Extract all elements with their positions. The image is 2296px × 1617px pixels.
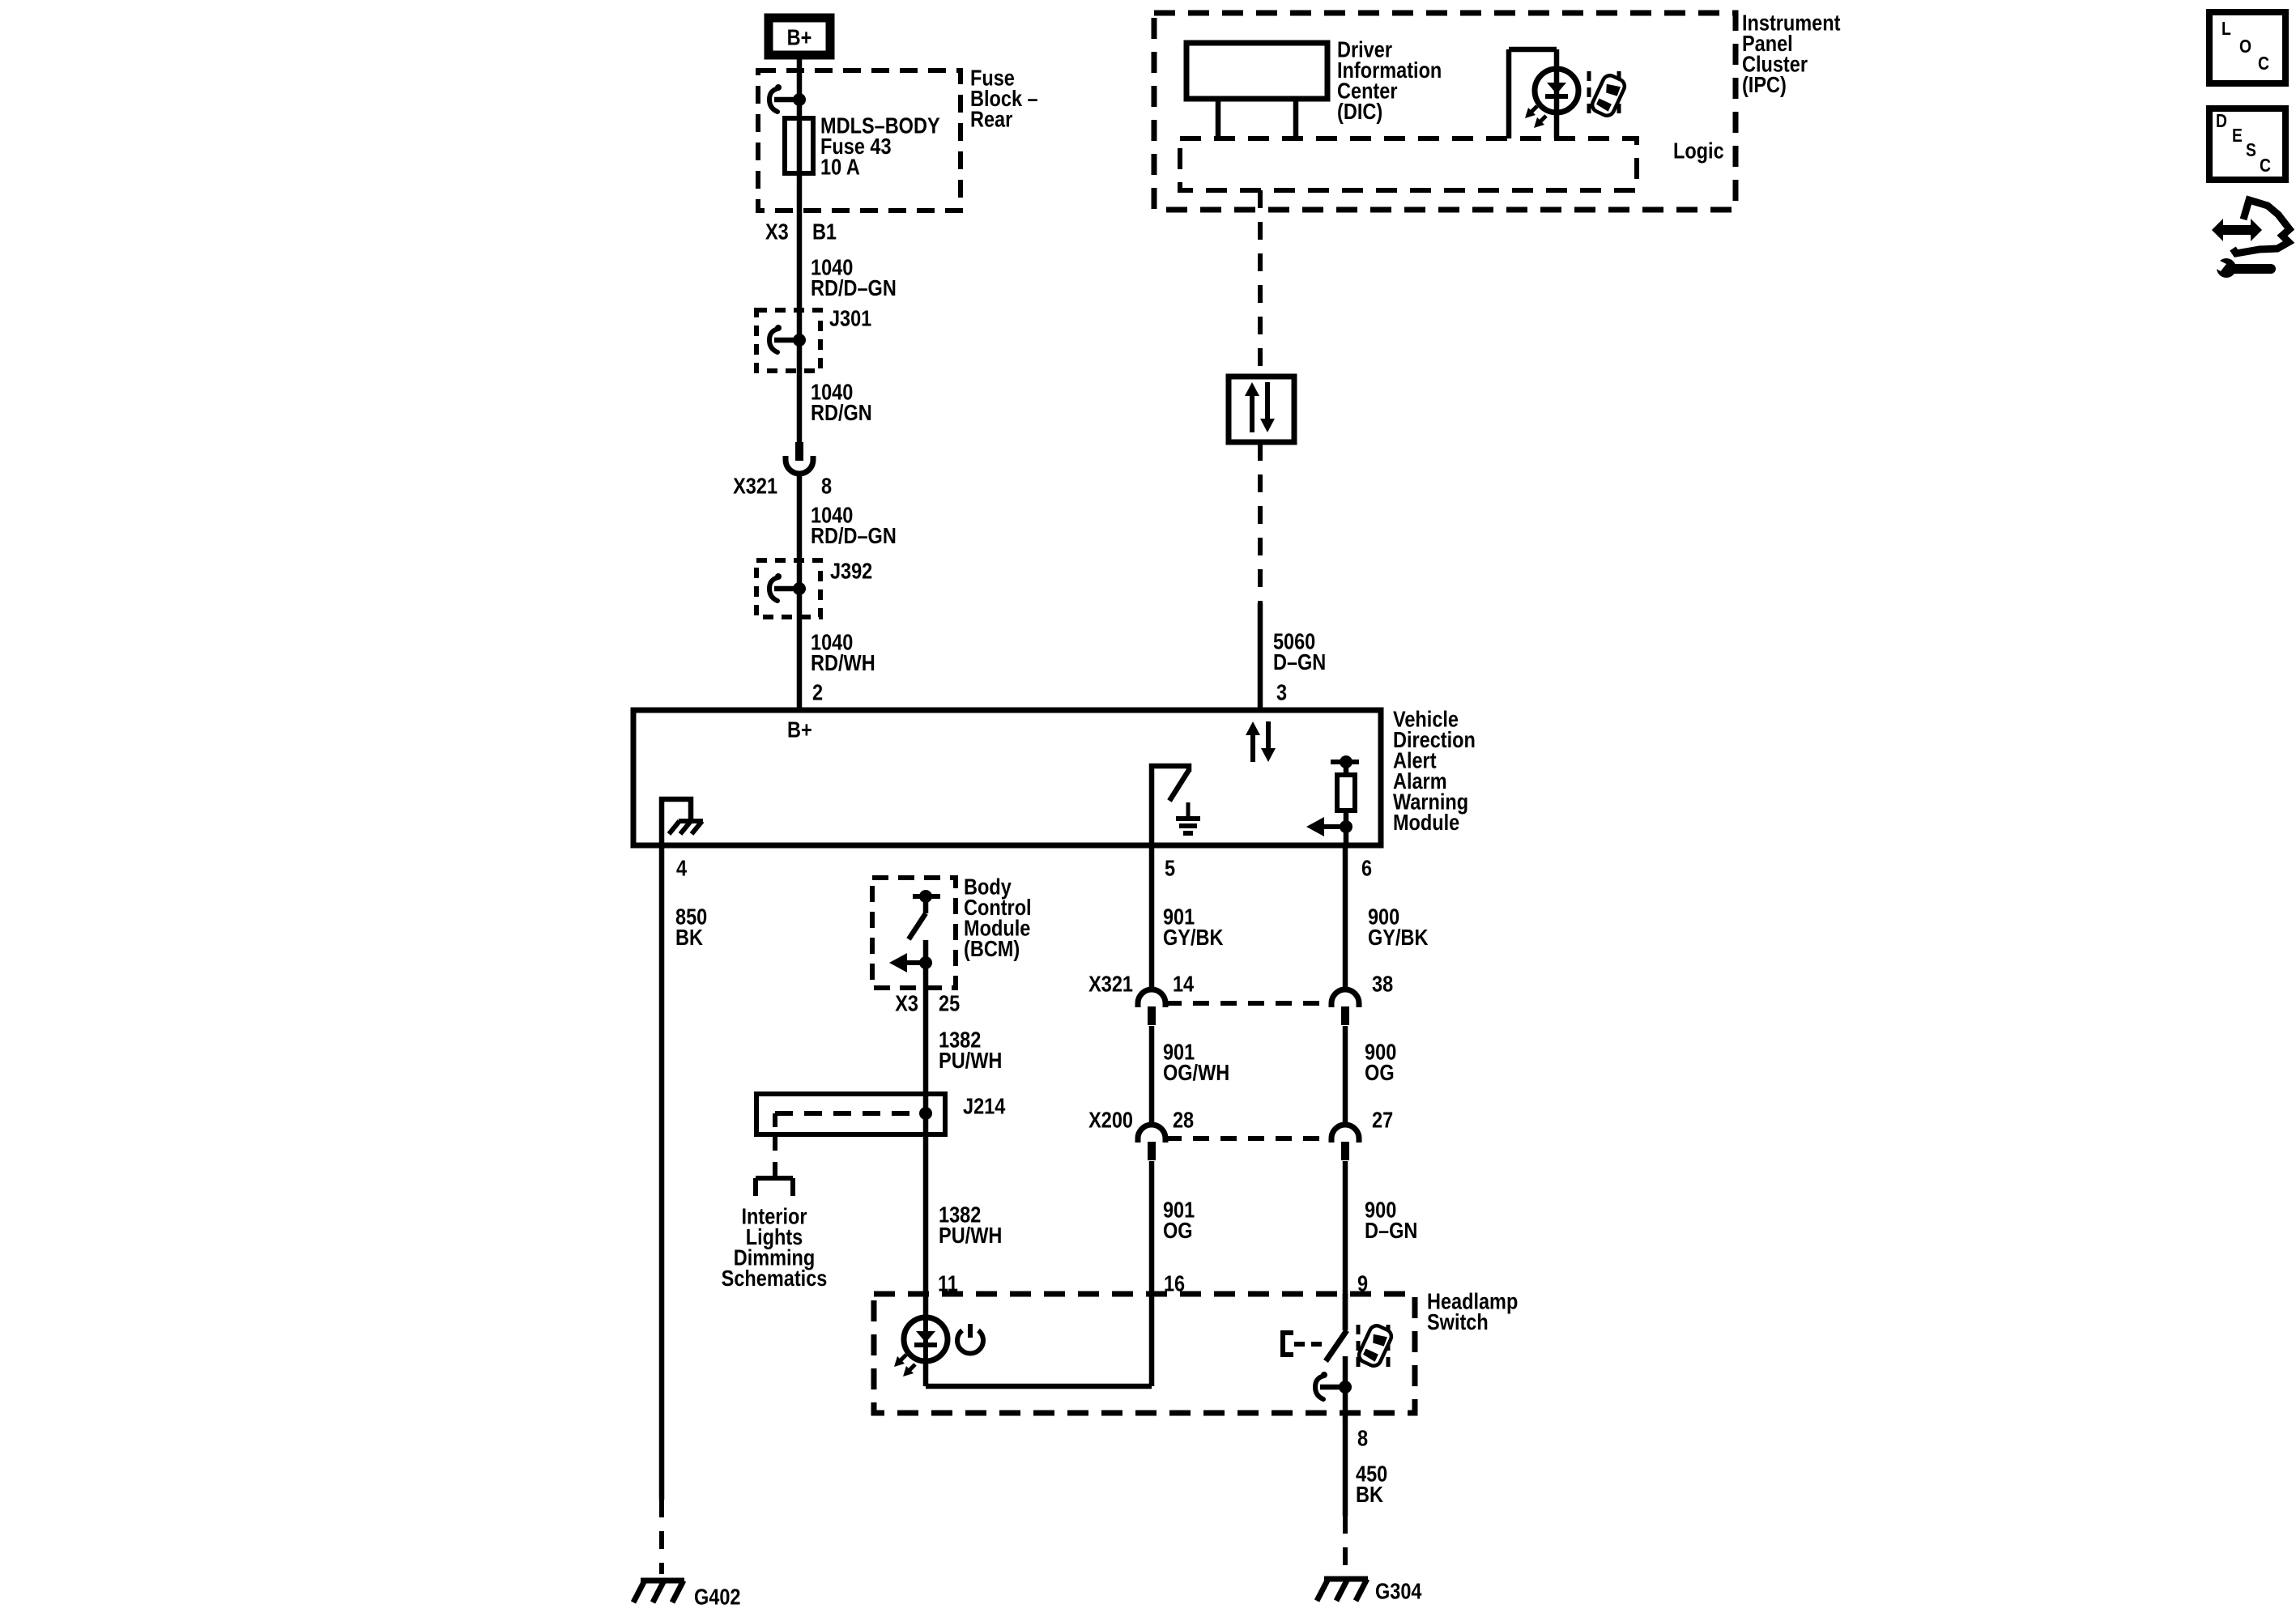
svg-text:25: 25	[939, 992, 960, 1016]
svg-text:E: E	[2232, 126, 2243, 147]
svg-text:11: 11	[938, 1272, 958, 1296]
svg-text:Rear: Rear	[970, 108, 1012, 132]
svg-text:Switch: Switch	[1427, 1310, 1489, 1334]
svg-text:(DIC): (DIC)	[1337, 100, 1382, 124]
svg-text:D–GN: D–GN	[1273, 650, 1326, 674]
svg-text:RD/WH: RD/WH	[811, 651, 875, 675]
svg-text:X3: X3	[765, 220, 789, 245]
svg-text:J214: J214	[963, 1095, 1006, 1119]
svg-text:D: D	[2216, 112, 2227, 132]
svg-text:C: C	[2260, 156, 2271, 177]
svg-text:OG/WH: OG/WH	[1163, 1061, 1229, 1085]
svg-text:28: 28	[1173, 1108, 1194, 1133]
svg-text:GY/BK: GY/BK	[1368, 926, 1429, 950]
svg-text:RD/D–GN: RD/D–GN	[811, 524, 897, 548]
svg-text:PU/WH: PU/WH	[939, 1223, 1002, 1248]
svg-text:14: 14	[1173, 972, 1195, 997]
svg-text:OG: OG	[1163, 1219, 1193, 1243]
svg-text:(BCM): (BCM)	[964, 937, 1020, 961]
svg-text:S: S	[2246, 141, 2256, 161]
svg-text:Schematics: Schematics	[722, 1266, 828, 1291]
svg-text:GY/BK: GY/BK	[1163, 926, 1224, 950]
svg-text:B+: B+	[787, 718, 812, 743]
svg-text:9: 9	[1357, 1272, 1368, 1296]
svg-text:8: 8	[821, 474, 832, 499]
svg-text:PU/WH: PU/WH	[939, 1049, 1002, 1073]
svg-text:X3: X3	[895, 992, 918, 1016]
svg-text:B+: B+	[787, 26, 812, 50]
svg-text:(IPC): (IPC)	[1742, 73, 1787, 97]
svg-text:J392: J392	[830, 560, 872, 584]
svg-text:3: 3	[1276, 681, 1287, 705]
svg-text:G304: G304	[1375, 1580, 1422, 1604]
svg-text:Logic: Logic	[1673, 139, 1724, 164]
svg-text:4: 4	[676, 857, 688, 881]
svg-text:10 A: 10 A	[820, 155, 860, 180]
svg-text:8: 8	[1357, 1427, 1368, 1451]
svg-text:X321: X321	[1088, 972, 1133, 997]
svg-text:O: O	[2239, 37, 2251, 57]
svg-text:6: 6	[1361, 857, 1372, 881]
svg-text:X321: X321	[733, 474, 777, 499]
svg-text:27: 27	[1372, 1108, 1393, 1133]
svg-text:Module: Module	[1393, 811, 1459, 835]
svg-text:L: L	[2221, 19, 2231, 40]
svg-text:2: 2	[812, 681, 823, 705]
svg-text:J301: J301	[829, 307, 871, 331]
svg-text:X200: X200	[1088, 1108, 1133, 1133]
svg-text:5: 5	[1165, 857, 1175, 881]
svg-text:D–GN: D–GN	[1365, 1219, 1417, 1243]
svg-text:OG: OG	[1365, 1061, 1395, 1085]
svg-text:38: 38	[1372, 972, 1393, 997]
svg-text:C: C	[2258, 54, 2269, 74]
svg-text:BK: BK	[675, 926, 703, 950]
svg-text:RD/GN: RD/GN	[811, 401, 872, 425]
svg-text:G402: G402	[694, 1585, 741, 1610]
svg-text:B1: B1	[812, 220, 837, 245]
svg-text:16: 16	[1164, 1272, 1185, 1296]
svg-text:BK: BK	[1356, 1483, 1383, 1507]
svg-text:RD/D–GN: RD/D–GN	[811, 276, 897, 300]
